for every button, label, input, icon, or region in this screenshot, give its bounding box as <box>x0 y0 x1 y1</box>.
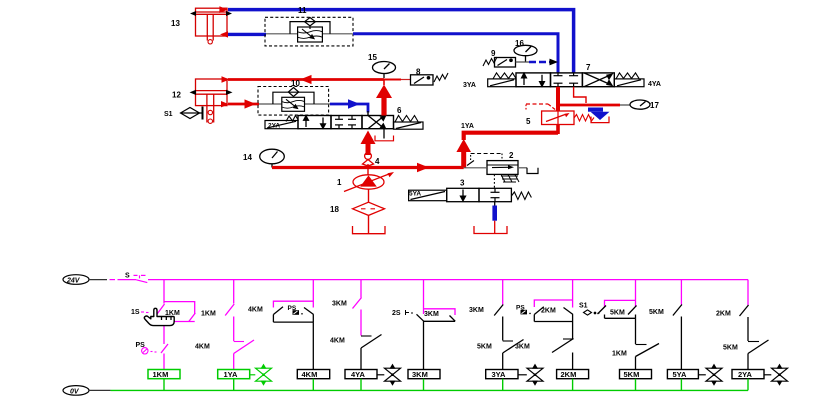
svg-text:2KM: 2KM <box>716 311 731 318</box>
svg-text:1: 1 <box>337 178 342 187</box>
cylinder 13 cushion arrows <box>190 11 232 16</box>
valve 6 centre blocked ports <box>335 116 356 129</box>
switch 9 zigzag symbol <box>483 57 497 66</box>
valve 7 left solenoid 3YA <box>488 73 516 87</box>
svg-text:4: 4 <box>375 157 380 166</box>
wire coil 1KM to 0V <box>163 379 165 391</box>
valve6 T port drain <box>375 129 394 141</box>
PS symbol branch1 <box>142 348 157 354</box>
wire red cyl12 cap line to junction <box>228 78 384 81</box>
valve 6 solenoid 2YA <box>265 116 299 129</box>
S1 symbol branch8 <box>584 310 600 315</box>
svg-text:4KM: 4KM <box>330 338 345 345</box>
branch 7 wire mid <box>572 322 574 339</box>
holding loop contact 1KM <box>164 302 195 322</box>
cylinder 13 port arrows <box>219 6 228 37</box>
pressure switch 9 <box>495 58 516 68</box>
branch 3 loop bottom join <box>273 321 313 323</box>
wire red check4 to pump <box>367 164 369 175</box>
svg-text:16: 16 <box>515 39 524 48</box>
wire valve6 A port stub <box>367 111 369 116</box>
coil 3KM <box>408 370 440 380</box>
relief 2 spring <box>501 175 519 183</box>
limit switch S1 <box>181 107 204 120</box>
wire coil 4KM to 0V <box>312 379 314 391</box>
svg-text:2KM: 2KM <box>541 308 556 315</box>
branch 8 parallel loop top <box>605 300 636 307</box>
blue drain arrow <box>588 108 610 121</box>
svg-text:7: 7 <box>586 63 591 72</box>
flow control valve 11 <box>265 17 353 46</box>
solenoid symbol 3YA <box>518 365 543 385</box>
wire red cyl12 rod line to comp10 <box>228 103 259 106</box>
branch 3 wire to coil <box>312 322 314 369</box>
svg-text:3KM: 3KM <box>412 370 428 379</box>
branch 8 loop bottom join <box>605 317 636 319</box>
coil 3YA <box>486 370 518 380</box>
solenoid symbol 1YA <box>250 365 272 385</box>
svg-text:2YA: 2YA <box>268 123 280 130</box>
coil 2KM <box>557 370 589 380</box>
relief valve 5 pilot dashed <box>526 104 557 111</box>
contact 5KM branch9 <box>673 305 682 370</box>
contact 5KM NC branch10 <box>748 340 769 370</box>
svg-text:4YA: 4YA <box>351 370 365 379</box>
svg-text:1KM: 1KM <box>153 370 169 379</box>
svg-text:4YA: 4YA <box>648 81 661 88</box>
wire red main pressure to valve 7 <box>456 125 558 168</box>
coil 2YA <box>732 370 764 380</box>
svg-text:3YA: 3YA <box>492 370 506 379</box>
wire coil 2YA to 0V <box>747 379 749 391</box>
flow arrow right on rod line <box>245 99 257 108</box>
2S actuation mark <box>406 310 414 315</box>
contact 5KM NC branch6 <box>503 340 524 370</box>
contact 1KM NC branch8 <box>636 344 660 370</box>
svg-text:5KM: 5KM <box>649 309 664 316</box>
valve 10 setting arrow <box>286 99 298 108</box>
svg-text:4KM: 4KM <box>248 307 263 314</box>
svg-text:S: S <box>125 273 130 280</box>
wire red pump main line <box>272 166 464 169</box>
wire blue comp10 to valve6 <box>330 104 368 113</box>
wire valve6 B port up to cap line <box>376 80 392 116</box>
coil 1KM <box>148 370 180 380</box>
svg-text:4KM: 4KM <box>302 370 318 379</box>
valve 3 body <box>447 188 512 201</box>
coil 5KM <box>620 370 652 380</box>
branch 10 wire from rail <box>747 280 749 305</box>
valve 3 spring <box>511 192 531 200</box>
coil 4YA <box>345 370 377 380</box>
branch 5 parallel loop top <box>424 309 456 315</box>
svg-text:2: 2 <box>509 151 514 160</box>
wire coil 1YA to 0V <box>233 379 235 391</box>
branch 1 wire from rail <box>163 280 165 304</box>
svg-text:2KM: 2KM <box>561 370 577 379</box>
valve 7 right solenoid 4YA <box>614 73 644 87</box>
svg-text:24V: 24V <box>66 278 81 285</box>
tank pump suction <box>353 226 386 234</box>
1S actuation dashes <box>141 311 149 314</box>
tank relief drain <box>591 117 609 123</box>
svg-text:10: 10 <box>291 79 300 88</box>
contact 1S start button <box>156 304 165 344</box>
svg-text:1KM: 1KM <box>612 351 627 358</box>
valve 3 solenoid 5YA <box>409 190 447 201</box>
branch 8 wire mid <box>635 318 637 344</box>
svg-text:6: 6 <box>397 106 402 115</box>
svg-text:5KM: 5KM <box>624 370 640 379</box>
coil 5YA <box>667 370 698 380</box>
svg-text:5YA: 5YA <box>673 370 687 379</box>
valve 7 crossed position <box>584 73 612 87</box>
svg-text:1YA: 1YA <box>461 123 474 130</box>
contact 4KM branch3 loop leg <box>273 307 283 322</box>
svg-text:3YA: 3YA <box>463 82 476 89</box>
wire red valve7 P port down <box>556 87 560 111</box>
0V supply terminal <box>63 386 89 396</box>
pump 1 <box>344 172 394 192</box>
relief valve 5 spring <box>574 115 594 122</box>
valve 3 blocked position <box>491 188 500 201</box>
wire switch9 gauge16 to valve7 <box>516 59 559 66</box>
relief 2 pilot dashed <box>467 154 502 166</box>
svg-text:3KM: 3KM <box>469 307 484 314</box>
cylinder 12 cushion arrows <box>190 90 233 95</box>
svg-text:5KM: 5KM <box>477 344 492 351</box>
wire pump to filter <box>368 189 370 202</box>
bus 24V rail <box>148 279 748 281</box>
svg-text:15: 15 <box>368 53 377 62</box>
cylinder 12 port arrows <box>221 76 230 107</box>
contact 4KM NC branch4 <box>361 335 382 370</box>
wire red to gauge 17 <box>558 104 620 107</box>
wire red valve3 to tank <box>494 221 496 234</box>
solenoid symbol 4YA <box>377 365 401 385</box>
branch 5 wire to coil <box>423 321 425 369</box>
coil 1YA <box>218 370 250 380</box>
branch 7 loop bottom join <box>534 321 572 323</box>
svg-text:5KM: 5KM <box>723 345 738 352</box>
valve 7 centre blocked ports <box>554 73 579 87</box>
pressure switch 8 <box>411 75 434 85</box>
contact 3KM branch4 <box>353 298 362 336</box>
cylinder 13 <box>196 8 228 44</box>
valve 6 crossed position <box>368 116 386 129</box>
branch 8 wire from rail <box>635 280 637 307</box>
PS symbol branch7 <box>521 310 531 315</box>
branch 3 wire from rail <box>312 280 314 308</box>
svg-text:17: 17 <box>650 101 659 110</box>
svg-text:12: 12 <box>172 91 181 100</box>
contact 3KM NC branch7 <box>552 339 574 370</box>
svg-text:2YA: 2YA <box>738 370 752 379</box>
svg-text:0V: 0V <box>70 388 80 395</box>
PS symbol branch3 <box>293 310 303 315</box>
branch 3 parallel loop top <box>273 301 313 307</box>
wire blue cyl13 bottom to comp11 <box>228 33 266 36</box>
coil 4KM <box>297 370 329 380</box>
wire coil 3YA to 0V <box>502 379 504 391</box>
directional valve 7 body <box>516 73 614 87</box>
wire coil 2KM to 0V <box>572 379 574 391</box>
contact 3KM branch5 loop leg <box>450 316 456 322</box>
pressure switch PS contact branch1 <box>161 344 168 370</box>
wire coil 4YA to 0V <box>360 379 362 391</box>
wire coil 5YA to 0V <box>680 379 682 391</box>
relief valve 5 <box>542 111 574 125</box>
svg-text:3KM: 3KM <box>515 344 530 351</box>
check valve 4 <box>363 153 374 166</box>
switch 8 zigzag symbol <box>434 73 448 82</box>
branch 2 wire from rail <box>233 280 235 304</box>
flow arrow blue right <box>348 99 360 109</box>
valve 3 drain blue <box>494 202 496 206</box>
wire filter to tank <box>368 215 370 233</box>
svg-text:4KM: 4KM <box>195 344 210 351</box>
gauge 14 <box>260 149 285 167</box>
branch 4 wire from rail <box>360 280 362 298</box>
valve 11 setting arrow <box>302 29 314 39</box>
svg-text:3KM: 3KM <box>424 311 439 318</box>
svg-text:S1: S1 <box>579 303 588 310</box>
valve 7 box1 arrows <box>522 73 545 86</box>
contact PS branch3 main leg <box>304 308 314 323</box>
cylinder 12 <box>196 79 228 123</box>
wire blue comp11 to valve7 <box>353 34 558 73</box>
gauge 17 <box>630 100 650 109</box>
svg-text:5YA: 5YA <box>409 191 421 198</box>
svg-text:1YA: 1YA <box>224 370 238 379</box>
branch 9 wire from rail <box>680 280 682 305</box>
wire red junction to pressure switch 8 <box>384 79 401 81</box>
gauge 15 <box>373 62 396 79</box>
tank valve3 <box>474 226 507 234</box>
branch 7 wire from rail <box>572 280 574 308</box>
relief 2 drain <box>527 168 538 174</box>
wire coil 3KM to 0V <box>423 379 425 391</box>
filter 18 <box>353 202 385 215</box>
hand cursor <box>144 308 174 325</box>
contact 2KM branch10 <box>740 305 749 341</box>
master switch S <box>134 275 148 282</box>
svg-text:11: 11 <box>298 6 307 15</box>
contact 4KM NC branch2 <box>234 340 254 370</box>
svg-text:5KM: 5KM <box>610 310 625 317</box>
svg-text:1S: 1S <box>131 309 140 316</box>
contact 5KM branch8 main leg <box>628 306 637 319</box>
directional valve 6 body <box>298 116 394 129</box>
branch 5 loop bottom join <box>424 320 456 322</box>
valve 6 box1 arrows <box>304 116 326 129</box>
solenoid symbol 2YA <box>764 365 788 385</box>
wire 0V to rail <box>89 389 111 391</box>
branch 7 parallel loop top <box>534 300 572 307</box>
wire valve6 P port from pump <box>361 131 376 156</box>
wire coil 5KM to 0V <box>635 379 637 391</box>
valve 3 arrow position <box>461 190 466 201</box>
contact PS branch7 loop leg <box>534 307 544 322</box>
wire valve7 T port drain <box>574 87 586 103</box>
contact 2KM branch7 main leg <box>564 308 574 322</box>
branch 6 wire from rail <box>502 280 504 305</box>
24V supply terminal <box>63 275 89 285</box>
contact S1 branch8 loop leg <box>598 306 607 319</box>
svg-text:5: 5 <box>526 117 531 126</box>
contact 1KM branch2 <box>225 304 234 341</box>
bus 0V rail <box>111 389 748 391</box>
relief valve 2 <box>464 161 527 175</box>
svg-text:2S: 2S <box>392 310 401 317</box>
svg-text:S1: S1 <box>164 111 173 118</box>
flow control valve 10 <box>258 87 330 116</box>
svg-text:18: 18 <box>330 205 339 214</box>
svg-text:14: 14 <box>243 153 252 162</box>
valve 6 right spring and pilot box <box>394 116 424 130</box>
svg-text:13: 13 <box>171 19 180 28</box>
contact 2S branch5 main leg <box>417 314 424 321</box>
contact 3KM branch6 <box>494 305 503 341</box>
flow arrow left on cap line <box>300 75 312 84</box>
svg-text:9: 9 <box>491 49 496 58</box>
flow arrow right on main line <box>417 163 429 173</box>
svg-text:3KM: 3KM <box>332 301 347 308</box>
pilot dashed relief2 to valve3 <box>493 174 495 188</box>
wire blue cyl13 top to valve7 <box>228 10 574 73</box>
svg-text:8: 8 <box>416 68 421 77</box>
branch 5 wire from rail <box>423 280 425 314</box>
svg-text:1KM: 1KM <box>201 311 216 318</box>
solenoid symbol 5YA <box>698 365 722 385</box>
svg-text:3: 3 <box>460 179 465 188</box>
gauge 16 <box>514 45 537 62</box>
wire 24V to switch S <box>89 279 136 281</box>
